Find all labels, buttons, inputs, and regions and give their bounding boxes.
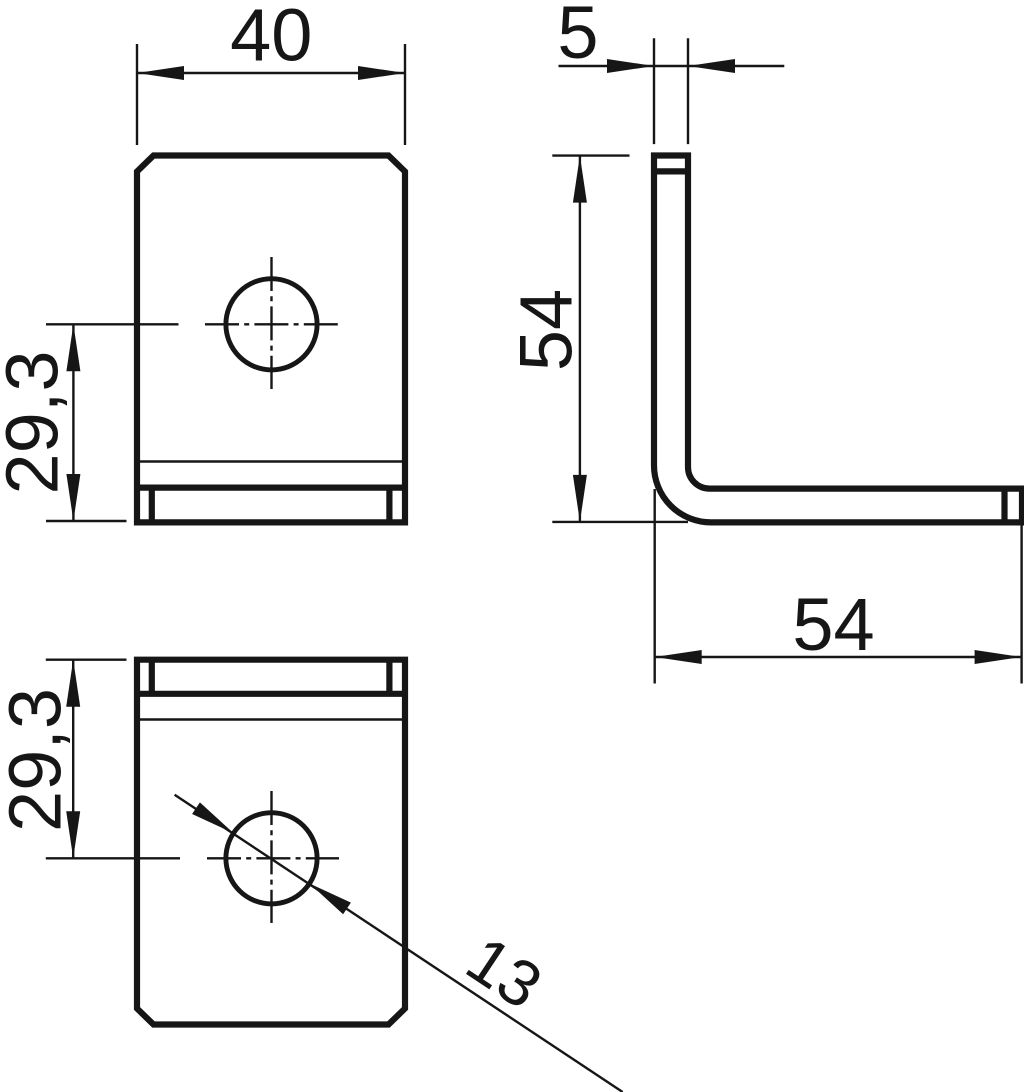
dim 29,3 (bottom view): extension lines [46,659,127,661]
dim 40: arrows [137,66,184,80]
svg-text:5: 5 [557,0,598,74]
svg-text:54: 54 [792,583,874,666]
leg edge line (thick) [137,691,405,697]
leader line for hole diameter [175,795,623,1092]
dim 29,3: arrows [66,660,80,707]
bracket bottom outline [137,660,405,1025]
leg corner tick left [149,488,155,523]
dim 54 horizontal: extension lines [654,489,656,684]
hole [226,813,317,904]
hole [226,279,317,370]
leg edge line (thick) [137,485,405,491]
dim 54 vertical: extension lines [552,154,629,156]
dim 40: extension lines [136,44,138,145]
L-profile outline [654,156,1022,523]
svg-text:40: 40 [230,0,312,77]
dim 54 vertical: arrows [573,156,587,203]
svg-text:29,3: 29,3 [0,688,77,832]
dim 40: dimension line [137,72,405,74]
leg corner tick right [386,660,392,694]
dim 5: arrows [607,59,654,73]
dim 5: extension lines [653,38,655,144]
dim 29,3: arrows [66,324,80,371]
leader arrow upper [192,802,233,833]
right end tick [1001,489,1007,523]
bend tangent line (thin) [137,460,405,462]
svg-text:29,3: 29,3 [0,350,74,494]
dim 54 vertical: dimension line [579,156,581,522]
leg corner tick right [386,488,392,523]
svg-text:54: 54 [505,289,588,371]
hole centerline vertical [270,791,272,923]
dim 54 horizontal: dimension line [655,656,1022,658]
bend tangent line (thin) [137,718,405,720]
hole centerline vertical [270,257,272,389]
dim 54 horizontal: arrows [655,650,702,664]
dim 29,3: dimension line [72,660,74,859]
top edge tick [654,168,688,174]
leg corner tick left [149,660,155,694]
dim 29,3: dimension line [72,324,74,521]
leader arrow lower [310,884,351,915]
bracket front outline [137,156,405,523]
hole centerline horizontal [207,857,339,859]
dim 29,3 (top view): extension lines [46,323,179,325]
dim 5: dimension line [559,65,785,67]
hole centerline horizontal [205,323,339,325]
